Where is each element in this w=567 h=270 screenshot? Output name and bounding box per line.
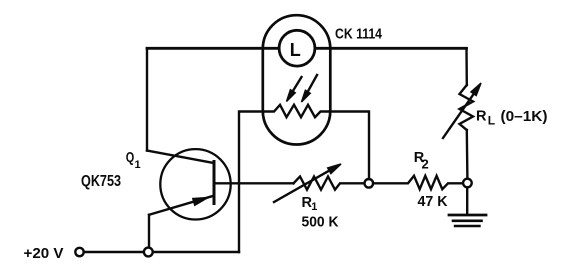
svg-text:500 K: 500 K xyxy=(302,214,339,231)
label RL (0-1K) xyxy=(476,109,548,128)
svg-text:1: 1 xyxy=(311,201,317,213)
svg-text:1: 1 xyxy=(135,159,141,171)
wire bottom rail xyxy=(84,251,239,253)
wire base lead to R1 xyxy=(214,182,294,184)
svg-text:Q: Q xyxy=(126,150,135,166)
wire top rail to RL xyxy=(465,48,468,85)
light arrow 1 xyxy=(287,77,302,102)
svg-text:L: L xyxy=(290,40,301,60)
wire top rail xyxy=(147,47,467,50)
wire photoresistor to node xyxy=(330,112,369,180)
wire RL to node xyxy=(466,130,469,179)
svg-text:CK 1114: CK 1114 xyxy=(335,27,382,43)
svg-text:L: L xyxy=(488,114,495,128)
resistor RL (variable 0-1K) xyxy=(443,83,481,138)
terminal +20V xyxy=(75,248,83,256)
wire emitter to +20V rail xyxy=(148,215,150,248)
wire collector lead xyxy=(147,151,214,164)
label R2 xyxy=(414,150,429,171)
resistor R1 (variable, 500K) xyxy=(274,164,364,202)
photoresistor element (inside CK1114) xyxy=(263,105,330,117)
raysistor CK1114 envelope xyxy=(263,15,331,144)
label Q1 xyxy=(126,150,141,171)
svg-text:+20 V: +20 V xyxy=(24,245,64,262)
label R1 xyxy=(302,195,318,213)
light arrow 2 xyxy=(302,75,318,102)
node junction R2/RL/ground xyxy=(463,179,472,188)
transistor Q1 xyxy=(149,149,231,219)
svg-text:47 K: 47 K xyxy=(418,193,448,210)
svg-text:QK753: QK753 xyxy=(81,173,121,190)
svg-text:(0–1K): (0–1K) xyxy=(501,109,548,125)
ground xyxy=(449,188,486,227)
resistor R2 47K xyxy=(373,176,463,189)
node junction at +20V rail xyxy=(144,248,153,257)
wire left vertical (lamp to collector) xyxy=(146,48,148,150)
lamp L (inside CK1114) xyxy=(279,30,315,66)
svg-text:2: 2 xyxy=(422,156,429,171)
wire photoresistor return (vertical) xyxy=(239,112,263,253)
svg-text:R: R xyxy=(476,109,487,125)
node junction R1/R2/photoresistor xyxy=(365,179,374,188)
